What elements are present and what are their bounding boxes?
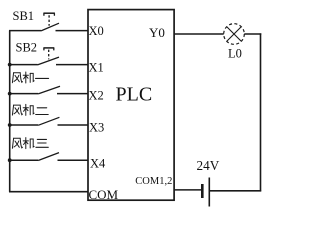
wire SB1 to X0 — [56, 30, 89, 32]
wire lamp to right rail — [244, 33, 261, 35]
junction dot bus/SB2 — [8, 63, 12, 67]
value label 24V — [197, 158, 220, 173]
lamp L0 — [224, 24, 245, 45]
wire bus to COM — [9, 191, 88, 193]
svg-text:X4: X4 — [90, 157, 106, 171]
svg-text:L0: L0 — [228, 47, 242, 61]
switch S1 (fan 1) — [38, 86, 60, 94]
battery BT1 — [202, 178, 209, 207]
label fan3 (CJK) — [12, 138, 48, 149]
pin label X1 — [89, 61, 104, 75]
pushbutton SB1 — [41, 13, 59, 31]
PLC box U1 — [88, 10, 174, 201]
svg-text:COM: COM — [89, 187, 119, 202]
left common bus wire — [9, 31, 11, 192]
svg-text:X3: X3 — [89, 121, 104, 135]
svg-text:Y0: Y0 — [149, 25, 165, 40]
svg-text:X2: X2 — [89, 89, 104, 103]
pin label COM1,2 — [135, 176, 172, 187]
svg-text:X0: X0 — [89, 24, 104, 38]
junction dot bus/S1 — [8, 92, 12, 96]
pin label COM — [89, 187, 119, 202]
pin label X0 — [89, 24, 104, 38]
wire bus to switch S2 — [9, 124, 38, 126]
wire S2 to X3 — [58, 124, 89, 126]
wire bus to SB2 — [9, 64, 38, 66]
pin label X3 — [89, 121, 104, 135]
wire S1 to X2 — [57, 93, 88, 95]
wire battery to COM1,2 — [174, 189, 202, 191]
right rail wire — [260, 33, 262, 190]
label SB2 — [16, 41, 38, 55]
label SB1 — [13, 9, 35, 23]
wire bus to switch S3 — [9, 159, 38, 161]
wire S3 to X4 — [58, 159, 89, 161]
label fan2 (CJK) — [12, 104, 48, 115]
wire rail to battery — [210, 190, 262, 192]
svg-text:SB1: SB1 — [13, 9, 35, 23]
label PLC — [116, 84, 153, 106]
svg-text:X1: X1 — [89, 61, 104, 75]
wire bus to switch S1 — [9, 93, 38, 95]
pushbutton SB2 — [38, 48, 60, 65]
svg-text:SB2: SB2 — [16, 41, 38, 55]
junction dot bus/S3 — [8, 158, 12, 162]
switch S3 (fan 3) — [38, 153, 59, 161]
svg-text:24V: 24V — [197, 158, 220, 173]
wire bus to SB1 — [9, 30, 41, 32]
switch S2 (fan 2) — [38, 117, 59, 125]
wire SB2 to X1 — [56, 64, 88, 66]
junction dot bus/S2 — [8, 123, 12, 127]
wire Y0 to lamp — [174, 33, 224, 35]
pin label X2 — [89, 89, 104, 103]
pin label Y0 — [149, 25, 165, 40]
label L0 — [228, 47, 242, 61]
svg-text:PLC: PLC — [116, 84, 153, 106]
label fan1 (CJK) — [12, 72, 48, 83]
pin label X4 — [90, 157, 106, 171]
svg-text:COM1,2: COM1,2 — [135, 176, 172, 187]
